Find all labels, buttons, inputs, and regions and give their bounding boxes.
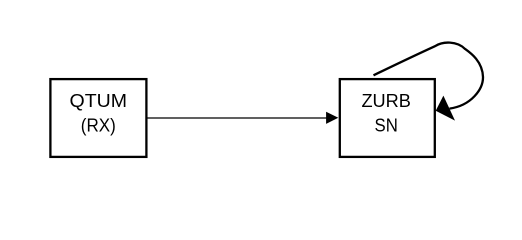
svg-text:SN: SN — [375, 114, 398, 135]
state box QTUM (RX) — [50, 79, 146, 157]
self-loop arc on ZURB SN : head — [436, 96, 455, 121]
svg-text:QTUM: QTUM — [70, 90, 128, 111]
transition arrow QTUM to ZURB : shaft — [147, 117, 327, 119]
svg-text:(RX): (RX) — [81, 114, 116, 135]
self-loop arc on ZURB SN : curve — [374, 43, 484, 109]
transition arrow QTUM to ZURB : head — [326, 112, 338, 124]
svg-text:ZURB: ZURB — [361, 90, 411, 111]
state box ZURB SN — [340, 79, 435, 157]
